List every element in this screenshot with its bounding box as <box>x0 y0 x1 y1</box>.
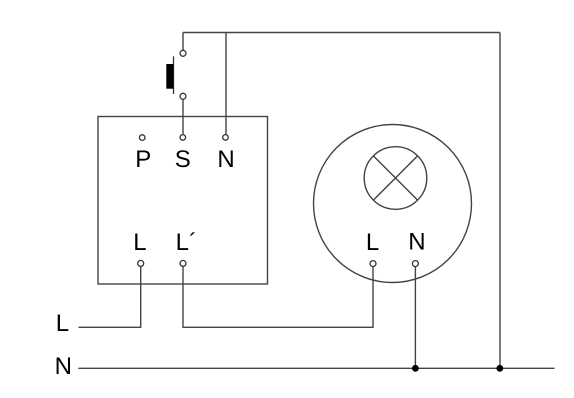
wire N supply line <box>78 367 554 369</box>
svg-text:P: P <box>135 146 151 173</box>
terminal L <box>138 260 144 266</box>
svg-text:L´: L´ <box>176 229 197 256</box>
wire box terminal L' to lamp terminal L <box>183 266 373 327</box>
svg-text:L: L <box>56 310 69 337</box>
terminal L' <box>180 260 186 266</box>
wire switch bottom lead to S terminal <box>182 99 184 134</box>
lamp terminal N <box>412 261 418 267</box>
svg-text:N: N <box>55 353 72 380</box>
switch bottom contact terminal <box>180 93 186 99</box>
lamp symbol circle <box>364 147 427 210</box>
terminal P <box>139 135 145 141</box>
wire L supply to box terminal L <box>79 266 141 327</box>
wire switch top lead <box>182 33 184 51</box>
switch actuator lever <box>173 56 175 94</box>
svg-text:L: L <box>366 229 379 256</box>
svg-text:S: S <box>175 146 191 173</box>
lamp terminal L <box>370 261 376 267</box>
terminal S <box>180 135 186 141</box>
lamp symbol cross stroke 2 <box>373 156 417 200</box>
junction lamp N on N line <box>412 365 419 372</box>
control unit box <box>98 117 268 285</box>
push-button switch S1 <box>166 50 186 99</box>
lamp fixture E1 (outline) <box>314 125 472 283</box>
wire right vertical N drop <box>499 33 501 369</box>
lamp symbol cross stroke 1 <box>373 156 417 200</box>
svg-text:N: N <box>408 229 425 256</box>
wire N vertical to box N terminal <box>225 33 227 135</box>
switch push button cap <box>166 64 173 89</box>
svg-text:L: L <box>133 229 146 256</box>
wire lamp terminal N drop <box>414 267 416 369</box>
terminal N <box>223 135 229 141</box>
wire top bus from switch to right vertical <box>183 32 500 34</box>
junction right vertical on N line <box>496 365 503 372</box>
svg-text:N: N <box>217 146 234 173</box>
switch top contact terminal <box>180 50 186 56</box>
